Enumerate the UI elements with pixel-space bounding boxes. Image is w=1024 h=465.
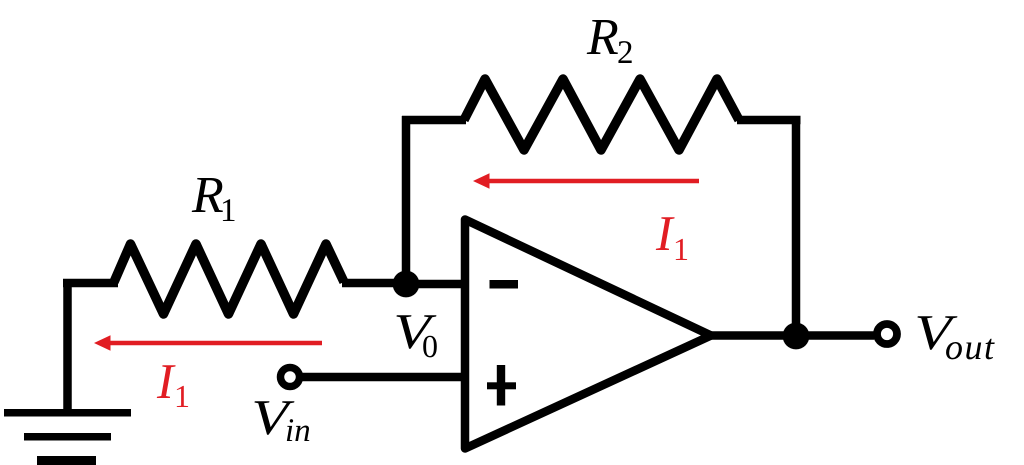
wire: op-amp output: [710, 331, 874, 340]
wire: R2 right stub: [737, 116, 801, 125]
wire: left horizontal stub to R1: [63, 279, 118, 288]
wire: ground vertical segment: [63, 279, 72, 413]
label I1 left text I: [157, 365, 176, 398]
op-amp minus sign: [490, 280, 519, 289]
resistor R2: [464, 79, 739, 150]
label V0 subscript 0: [423, 336, 437, 358]
label Vout text V: [917, 316, 957, 349]
terminal Vin open circle: [281, 368, 300, 387]
label I1 left subscript 1: [177, 386, 188, 407]
label Vin text V: [254, 401, 294, 434]
label R2 text R: [587, 20, 618, 54]
op-amp plus sign: [487, 382, 516, 389]
terminal Vout open circle: [877, 324, 897, 344]
op-amp U1: [465, 220, 711, 449]
label Vout subscript out: [946, 339, 995, 360]
label R1 text R: [192, 178, 223, 212]
resistor R1: [114, 244, 344, 314]
current arrow I1 under R1: [108, 341, 322, 345]
ground bar 3: [37, 456, 96, 465]
wire: feedback vertical down to output node: [792, 116, 801, 336]
label I1 right text I: [656, 217, 675, 250]
wire: R1 to node V0: [342, 279, 406, 288]
wire: node V0 to op-amp inverting input: [406, 280, 468, 289]
label V0 text V: [396, 315, 436, 348]
wire: non-inverting input from Vin: [300, 373, 468, 382]
wire: vertical from node V0 up to R2: [402, 116, 411, 284]
output node junction dot: [783, 323, 810, 350]
label I1 right subscript 1: [676, 239, 687, 260]
current arrow I1 under R2: [487, 179, 699, 183]
wire: R2 left stub: [402, 116, 466, 125]
ground bar 2: [24, 433, 111, 441]
node V0 junction dot: [393, 271, 420, 298]
label Vin subscript in: [287, 419, 309, 441]
label R1 subscript 1: [223, 199, 235, 221]
label R2 subscript 2: [618, 41, 631, 63]
ground bar 1: [4, 409, 131, 417]
